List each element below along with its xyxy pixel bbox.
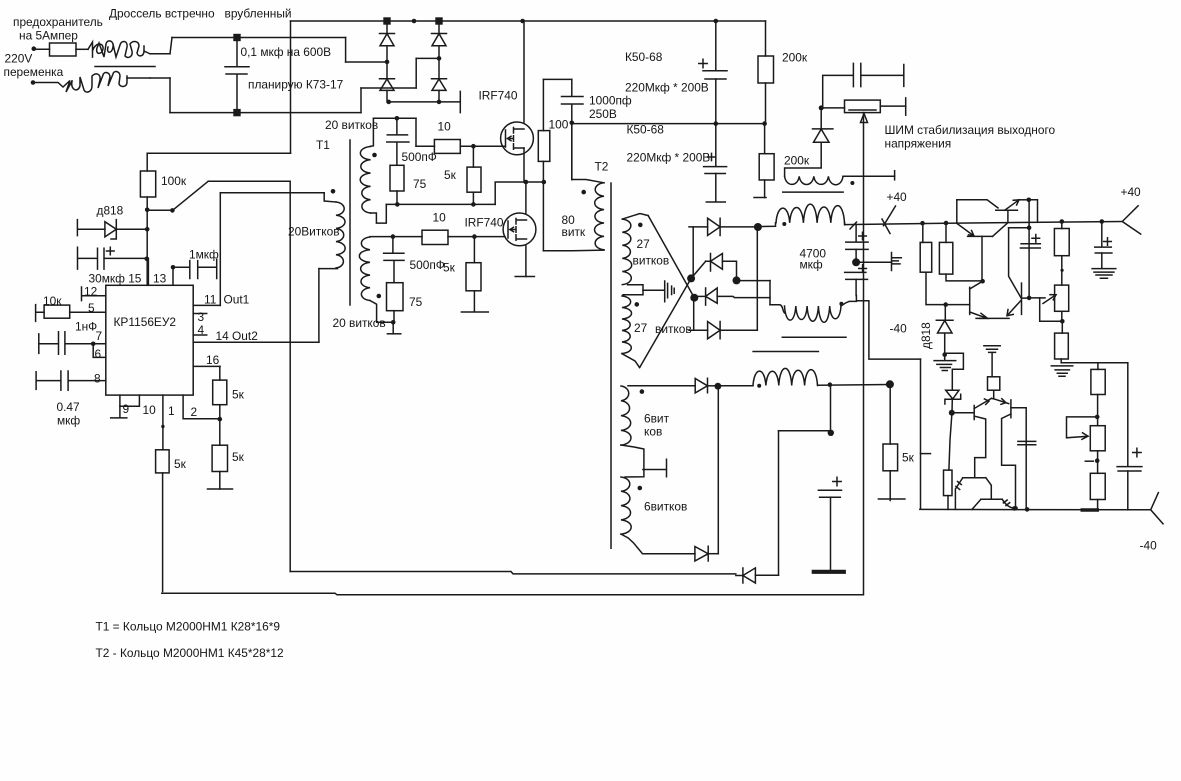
svg-text:10к: 10к [43,294,62,308]
node pin7/pin6 [91,342,96,347]
wire stub at -40 drop [921,453,931,455]
wire R-C top lead [1061,222,1063,229]
ground bar thick (aux) [814,570,844,574]
wire long vertical (supply return) [289,181,291,571]
transistor QA collector to QB base [993,210,1008,236]
transistor QC collector [970,281,983,289]
wire hook to zener3 [945,353,964,390]
wire aux rail to L3 [718,385,753,387]
transistor QB emitter with arrow [1005,200,1019,211]
wire C5 bottom lead [715,79,717,124]
resistor 200k lower [759,154,774,180]
wire R-E bottom lead [1060,359,1062,363]
wire fuse left lead [34,48,50,50]
wire +40 output rail [845,222,1123,225]
wire 5k3 bottom lead [219,405,221,419]
phasing dot T1 winding2 [377,294,382,299]
wire into -40 choke [770,305,785,313]
node source line / 75R [395,202,400,207]
node cap column / rail [1025,507,1030,512]
ground center tap of T2 secondary [665,281,675,302]
resistor bias B [939,242,952,274]
node tick small [1061,269,1064,272]
svg-text:д818: д818 [919,322,933,349]
transistor QG emitter with arrow [955,478,962,510]
wire C12 to rail [1127,471,1129,510]
wire winding2 to 10R lower [393,236,422,238]
wire QF base lead [1011,407,1026,409]
thick blob on -40 rail [1082,508,1097,512]
ground midpoint symbol [892,253,902,271]
wire R-B top lead [945,223,947,242]
node zener2 / ground [942,352,947,357]
wire trim -40 bottom lead [1097,451,1099,474]
wire 200k-2 bottom lead [764,180,766,198]
svg-text:К50-68: К50-68 [625,50,663,64]
terminal bar 5k5 [878,498,905,500]
resistor 100k [140,171,155,197]
transistor QE base bar [973,406,975,420]
node +40 rectified (big) [754,223,762,231]
node negative rect (big) [733,276,741,284]
svg-text:T1 = Кольцо М2000НМ1 К28*16*9: T1 = Кольцо М2000НМ1 К28*16*9 [96,620,281,634]
svg-text:500пФ: 500пФ [402,150,437,164]
wire snubber top link [543,78,571,80]
inductor L1 (+40 choke, bumps up) [776,204,845,223]
zener D818-2 below QC base [936,305,953,355]
diode D3 bridge lower-left [380,79,395,91]
wiper arrow of trimmer [861,114,868,123]
polarity + C11 [1104,238,1112,246]
svg-text:4: 4 [198,323,205,337]
svg-text:20 витков: 20 витков [325,118,378,132]
wire lower lead hand kink [33,81,72,93]
svg-text:20 витков: 20 витков [333,316,386,330]
node FET1 source / FET2 drain [524,180,529,185]
resistor 5k gate2 [466,263,481,291]
pin 9 lead with ground tick [111,395,127,418]
wire bridge cross link vertical [415,58,417,88]
resistor 5k divider lower [212,445,227,471]
node gate2 / 5k top [472,234,477,239]
wire D7 cathode link [720,329,757,331]
wire mid rail to T2 primary [571,124,573,180]
zener diode D818 (VD5) [105,220,116,239]
node winding2 bottom / 75R [391,320,396,325]
wire L1 exit down [844,223,846,225]
wire D3 anode lead [386,90,388,102]
node mid rail C6 [714,121,719,126]
wire R-F top lead [1097,363,1099,370]
transistor QE collector down to QG base [974,416,986,478]
potentiometer trim +40 set [1055,285,1069,311]
terminal bar T1 lower [387,333,400,335]
terminal bar aux tap [643,459,667,476]
wire QC/QD emitter rail [976,317,1009,319]
inductor L3 aux supply (bumps up) [753,368,818,385]
phasing dot sec1 [638,223,643,228]
wire QD collector to column [1009,227,1030,229]
wire +310V top rail [291,20,766,22]
terminal fork -40 output [1151,493,1163,524]
wire R-A top lead [922,223,924,242]
svg-text:27: 27 [637,237,651,251]
wire cap rail bottom [170,112,361,114]
wire trim -40 top lead [1097,417,1099,426]
svg-text:ков: ков [644,425,662,439]
svg-text:10: 10 [433,211,447,225]
wire D8 anode lead [694,295,706,297]
svg-text:100к: 100к [161,174,187,188]
terminal fork +40 output [1122,206,1140,234]
wire QC base lead [946,304,970,306]
polarity + 30uF [107,247,115,255]
svg-text:Дроссель встречно врубленный: Дроссель встречно врубленный [109,7,292,21]
node C9 top [828,430,834,436]
wire feedback winding bottom lead [319,268,338,270]
node trim bottom [1060,319,1065,324]
svg-text:200к: 200к [782,51,808,65]
wire junction link [147,209,172,211]
svg-text:2: 2 [191,405,198,419]
svg-text:220Мкф * 200В: 220Мкф * 200В [627,151,711,165]
wire zener to Vcc [116,228,147,230]
svg-text:30мкф 15: 30мкф 15 [89,272,142,286]
svg-text:планирую К73-17: планирую К73-17 [248,78,344,92]
transformer T2 secondary winding 27 vitkov lower [622,296,632,354]
wire trimmer right lead [880,105,905,107]
node rail / R-B [944,221,949,226]
inductor L4 PWM aux winding (bumps down) [785,176,843,184]
wire 5k4 bottom lead [219,472,221,490]
transistor QA emitter with arrow [957,223,974,236]
svg-text:витк: витк [562,225,586,239]
wire pin13 stub [172,267,174,285]
wire -40 bottom rail [920,508,1151,510]
inductor L2 (-40 choke, bumps down) [785,306,841,322]
capacitor C5 K50-68 220uF 200V upper [703,71,727,79]
node top rail to Q1 drain [520,19,525,24]
terminal bar 5k4 [208,488,233,490]
node bridge out-minus right [437,100,442,105]
svg-text:14 Out2: 14 Out2 [216,329,259,343]
node QD base / trimmer wiper [1027,296,1032,301]
tick at trim -40 bottom [1085,460,1093,462]
pin 4 stub [193,334,207,336]
terminal bar 200k-2 bottom [754,197,766,199]
terminal bar Q2 source [515,276,534,278]
wire 5k2 bottom lead [473,291,475,312]
zener D13 lower [945,390,961,404]
svg-text:5к: 5к [232,388,245,402]
polarity + C8 [859,265,867,273]
resistor 5k gate1 [467,167,481,192]
svg-text:200к: 200к [784,154,810,168]
ground below R-E [1051,366,1072,376]
svg-text:20Витков: 20Витков [288,225,340,239]
svg-text:5к: 5к [174,457,187,471]
wire mid rail (caps junction) [572,123,765,125]
wire to R 200k-1 [765,21,767,56]
svg-text:Т2 - Кольцо М2000НМ1 К45*28*12: Т2 - Кольцо М2000НМ1 К45*28*12 [96,646,284,660]
wire wiper link with arrow -40 trim [1067,417,1098,440]
capacitor 0.1uF 600V [225,38,249,113]
node gate1 / 5k top [471,144,476,149]
resistor 5k pin1 [156,450,170,473]
tick mark on +40 rail [850,222,857,229]
diode D10 aux rectifier lower [695,546,708,561]
wire D7 anode vertical [693,298,695,331]
capacitor C11 output +40 [1095,247,1112,253]
wire T1 winding1 bottom lead jog [371,204,387,223]
capacitor 500pF lower [384,237,404,283]
wire riser to cap rail [170,38,172,54]
svg-text:1: 1 [168,404,175,418]
svg-text:5: 5 [88,301,95,315]
svg-text:Out1: Out1 [224,293,250,307]
svg-text:7: 7 [96,329,103,343]
svg-text:на 5Ампер: на 5Ампер [19,29,78,43]
svg-text:1мкф: 1мкф [189,248,219,262]
resistor R-E [1055,333,1069,359]
node aux rect output [715,383,722,390]
node C7/C8 midpoint (big) [852,258,860,266]
svg-text:13: 13 [153,272,167,286]
transistor QB base bar [996,209,1018,211]
wire diagonal A sec1-top to D6/D8 node [648,216,694,298]
svg-text:предохранитель: предохранитель [13,15,103,29]
node 5k3/5k4/pin2 [218,417,223,422]
svg-text:К50-68: К50-68 [627,123,665,137]
svg-text:IRF740: IRF740 [479,89,518,103]
wire -40 rail drop to bottom [920,359,922,509]
node small on pin1 wire [161,425,164,428]
wire to R 200k-2 [764,124,766,154]
resistor 10 upper gate [434,140,460,154]
pin 10 jumper to pin 9 [120,395,139,406]
wire fuse to choke [76,48,88,50]
potentiometer trim -40 set [1090,426,1105,451]
node square bridge right top [435,17,442,24]
wire C9 bottom lead [830,497,832,570]
diode D9 aux rectifier upper [695,378,707,393]
transistor QD collector riser [1009,228,1021,298]
wire aux center tap [621,445,644,477]
phasing dot L3 [757,384,761,388]
svg-text:Т2: Т2 [595,160,609,174]
transformer T1 winding1 (20 vitkov upper) [360,147,370,214]
transistor QC base bar [969,287,971,314]
diode D4 bridge lower-right [432,79,447,91]
wire FET1 source line [386,203,495,205]
wire Q1 source down [523,148,525,182]
node Vcc/30uF [145,257,150,262]
transistor QE emitter with arrow [974,398,991,408]
transistor Q2 IRF740 lower MOSFET [503,213,536,246]
node trimmer left [819,105,824,110]
wire neg node link [737,280,771,282]
wire trimmer left lead [821,107,844,109]
capacitor C9 aux filter [818,490,841,497]
wire T2 primary bottom lead [543,249,604,252]
polarity + C9 [833,477,841,485]
wire Out1 riser [219,193,221,306]
wire R-H to -40 rail [947,496,949,510]
wire to long vertical [208,180,290,182]
polarity + C5 [699,59,707,67]
diode D1 bridge upper-left [380,34,395,46]
transformer T2 secondary winding 27 vitkov upper [622,219,631,285]
svg-text:500пФ: 500пФ [410,258,445,272]
wire QE emitter to resistor [991,390,993,399]
terminal bar C6 bottom [706,201,725,203]
wire to D6 anode [691,261,706,278]
wire C9 link left [779,430,831,432]
wire startup drop from +310V [290,21,292,153]
node AC line input top [32,46,37,51]
wire D8 to neg rail [717,296,770,297]
transistor QH base bar [981,498,1002,500]
diode D5 positive rect upper [708,218,721,235]
resistor 5k aux [883,444,898,471]
node QF collector / rail [1013,506,1018,511]
svg-text:75: 75 [409,295,423,309]
transistor QH collector [972,499,981,509]
wire aux node to D10 [717,386,719,554]
wire QA base lead [981,236,983,281]
wire QD base lead [1022,297,1030,299]
svg-text:-40: -40 [1140,539,1158,553]
fuse FU1 5A [50,43,77,56]
svg-text:-40: -40 [890,322,908,336]
transistor Q1 internal gate/channel/arrow [506,128,525,150]
terminal bar trimmer right [905,98,907,115]
phasing dot L4 [850,181,854,185]
wire R-A bottom to QC base [926,272,946,304]
wire output node to +40 rail [1029,200,1038,222]
wire to termination bar [392,322,394,334]
phasing dot aux1 [640,389,645,394]
capacitor C10 reg +40 [1020,244,1040,248]
switch-slash marks on +40 rail [882,206,896,234]
wire trim bottom link [1040,298,1063,321]
svg-text:220V: 220V [5,52,33,66]
node QE base [949,410,955,416]
transistor QG collector to QH base [986,478,992,500]
node Vcc/zener [145,227,150,232]
wire pin16 stub [193,365,220,367]
wire Q2 source down [525,246,527,277]
wire bottom rail A [290,572,736,574]
wire center tap lead [628,285,664,291]
node source line / 5k [471,202,476,207]
terminal bar L4 right [894,171,896,180]
transformer T1 core [349,140,351,305]
svg-text:переменка: переменка [4,65,64,79]
wire startup to 100k [147,152,290,154]
transformer T1 winding2 (20 vitkov lower) [359,237,370,301]
wire choke upper out a [144,51,150,54]
node 500pF tap lower [391,234,396,239]
polarity + C12 [1133,448,1141,456]
capacitor QF base speedup [1018,441,1036,444]
wire C6 bottom lead [715,174,717,202]
wire drop to 10R [415,118,417,146]
node AC line input bottom [31,80,36,85]
wire R-G to -40 rail [1097,500,1099,510]
ground below zener2 [934,355,956,371]
svg-text:11: 11 [204,293,217,307]
svg-text:12: 12 [84,285,98,299]
wire choke lower out [127,77,150,79]
capacitor 0.47uF to pin8 [36,371,106,390]
diode D7 positive rect lower [708,322,721,339]
wire PWM feedback sense vertical [863,113,865,595]
pin 3 stub [193,313,207,315]
node mid rail left [570,121,575,126]
wire D2 cathode lead [438,21,440,34]
wire 75R to source line [396,191,398,204]
wire Vcc column (pin15) [146,197,148,285]
phasing dot aux2 [638,486,643,491]
transistor QD base bar [1021,283,1023,314]
transformer T1 feedback winding (20Vitkov) [336,202,345,268]
wire R-C to trimmer [1061,256,1063,285]
wire down to C9 [830,385,832,433]
wire 100R to T2 primary bottom [542,161,544,250]
diode D2 bridge upper-right [432,34,447,46]
node Vcc/feedback junction [145,208,150,213]
wire Q2 drain up [525,182,527,213]
transistor QG base bar [963,477,986,479]
resistor 200k upper [758,56,774,83]
phasing dot T1 feedback winding [331,189,336,194]
node QB emitter output [1027,198,1032,203]
wire T1 winding1 top lead [371,118,374,146]
common-mode choke winding upper (hand-drawn) [88,41,144,58]
node R-F / wiper link [1095,415,1100,420]
transistor QF base bar [1010,400,1012,418]
transistor Q2 internal gate/channel/arrow [508,219,527,241]
wire bottom rail to bridge lower-left [360,88,362,113]
wire bridge cross link horizontal [416,57,439,59]
wire C6 top lead [715,124,717,166]
transistor Q1 IRF740 upper MOSFET [501,122,534,155]
phasing dot T1 winding1 [372,153,377,158]
wire D7 cathode up to +40 node [756,227,758,330]
capacitor 30uF electrolytic [78,247,147,269]
resistor 5k pin16 [213,380,227,405]
capacitor 1000pF 250V [562,79,584,179]
node rect cluster lower (big) [690,294,698,302]
svg-text:6вит: 6вит [644,412,670,426]
wire D5 cathode to +40 node [720,226,758,228]
node FET junction to snubber [542,180,547,185]
terminal+lead 10k left [36,305,45,322]
wire R-E top lead [1061,321,1063,333]
transformer T2 aux winding 6vitkov lower [621,477,631,534]
node dot on top rail [412,19,417,24]
svg-text:5к: 5к [232,450,245,464]
node aux rail / C9 [828,382,833,387]
resistor R-H [944,470,953,496]
svg-text:мкф: мкф [57,414,80,428]
wire 5k1 top lead [472,146,474,167]
wire winding2 bottom lead jog [370,301,393,323]
resistor 10k [44,305,70,318]
wire QB emitter to output node [1019,199,1029,201]
wire pin15 stub [147,259,149,286]
